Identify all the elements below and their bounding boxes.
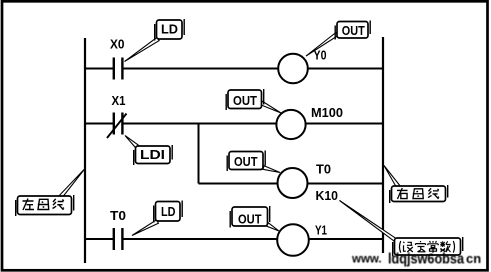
callout left bus label (zuo mu xian) <box>16 169 85 217</box>
svg-text:T0: T0 <box>110 208 126 223</box>
svg-text:LD: LD <box>161 205 176 219</box>
svg-text:K10: K10 <box>316 188 339 203</box>
wire rung4 mid <box>124 238 278 240</box>
wire rung3 right <box>308 183 384 185</box>
wire rung2 left <box>85 123 113 125</box>
svg-text:LDI: LDI <box>140 148 165 162</box>
wire rung2 mid <box>124 123 277 125</box>
contact X0 <box>110 37 125 80</box>
wire rung1 mid <box>124 68 279 70</box>
wire rung2 right <box>306 123 383 125</box>
svg-text:LD: LD <box>161 23 178 37</box>
left power bus <box>84 38 86 263</box>
callout LDI instruction rung2 <box>125 136 172 166</box>
coil Y1 <box>277 223 327 256</box>
svg-text:OUT: OUT <box>238 213 262 227</box>
watermark <box>351 251 481 268</box>
svg-text:ldqjsw6obsa: ldqjsw6obsa <box>388 251 465 268</box>
wire rung1 right <box>308 68 383 70</box>
svg-text:cn: cn <box>466 251 481 266</box>
svg-text:OUT: OUT <box>234 155 258 169</box>
svg-text:OUT: OUT <box>233 94 257 108</box>
wire rung1 left <box>85 68 113 70</box>
coil timer T0 <box>278 162 339 204</box>
contact T0 <box>110 208 126 250</box>
svg-text:www.: www. <box>351 254 382 266</box>
wire branch vertical <box>198 124 200 184</box>
svg-text:T0: T0 <box>316 162 331 177</box>
callout LD instruction rung4 <box>132 201 182 236</box>
callout OUT instruction rung2 <box>226 89 281 113</box>
contact X1 (normally closed) <box>107 93 127 138</box>
callout setting-constant label for K10 <box>340 201 463 257</box>
callout LD instruction rung1 <box>125 19 185 62</box>
callout OUT instruction rung3 <box>227 151 280 173</box>
svg-text:M100: M100 <box>311 105 343 120</box>
coil Y0 <box>278 48 326 84</box>
coil M100 <box>276 105 343 139</box>
callout OUT instruction rung4 <box>230 206 279 231</box>
callout right bus label (you mu xian) <box>384 166 448 204</box>
wire rung3 left <box>199 183 279 185</box>
svg-text:X1: X1 <box>112 93 126 108</box>
svg-text:X0: X0 <box>110 37 125 52</box>
svg-text:OUT: OUT <box>342 24 365 38</box>
callout OUT instruction rung1 <box>306 21 370 57</box>
svg-text:Y1: Y1 <box>315 223 327 238</box>
right power bus <box>382 37 384 253</box>
wire rung4 right <box>309 238 383 240</box>
wire rung4 left <box>85 238 113 240</box>
